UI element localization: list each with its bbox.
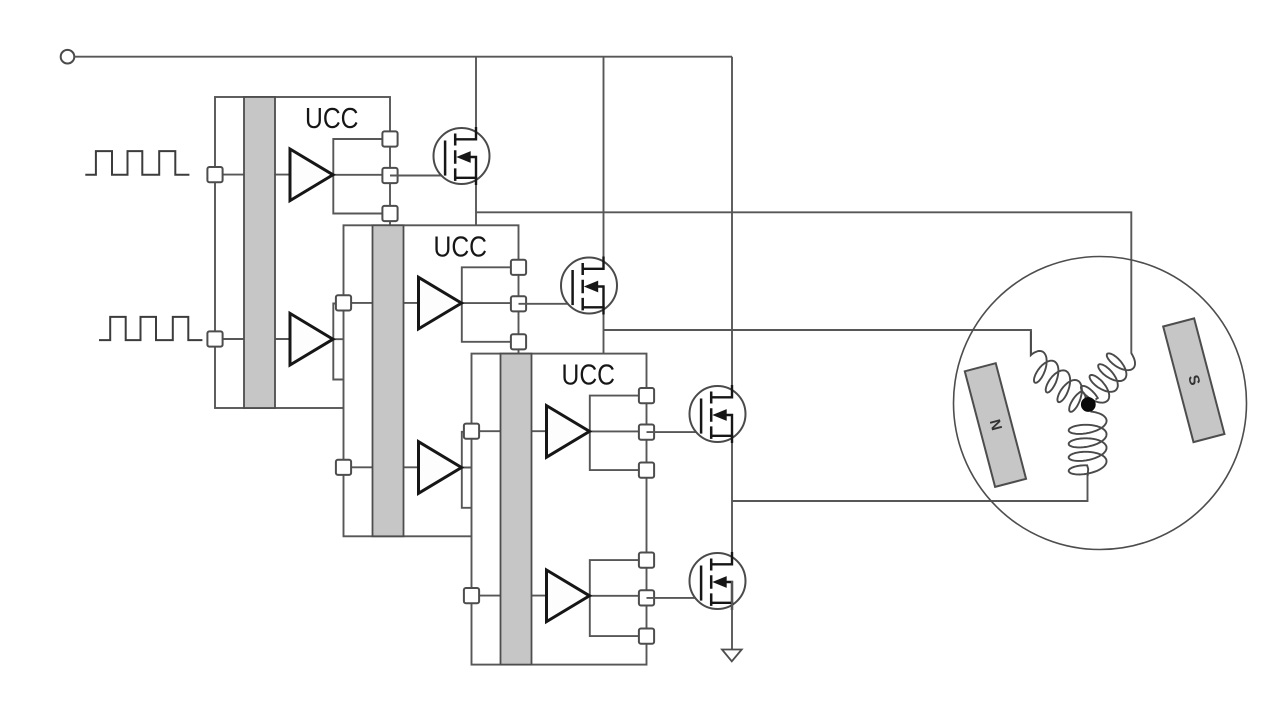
wire phase C to motor <box>732 475 1088 501</box>
wire gate Q1 <box>390 175 446 177</box>
motor outline <box>954 257 1247 550</box>
wire source Q3 to drain Q4 <box>731 414 733 581</box>
op-amp U1 gate driver UCC block 1 <box>207 97 397 408</box>
wire gate Q2 <box>519 303 574 305</box>
ground <box>722 650 742 662</box>
PWM input signal 1 <box>85 151 189 175</box>
wire drain drop Q2 <box>603 57 605 286</box>
wire VDC bus <box>74 56 732 58</box>
wire drain drop Q1 <box>475 57 477 156</box>
op-amp U3 gate driver UCC block 3 <box>464 354 654 665</box>
magnet S <box>1163 318 1224 442</box>
wire source Q4 to ground <box>731 581 733 649</box>
transistor Q2 <box>561 257 617 315</box>
transistor Q4 <box>690 552 746 610</box>
transistor Q3 <box>690 385 746 443</box>
wire gate Q4 <box>647 597 702 599</box>
wire drain drop Q3 <box>731 57 733 414</box>
node star point <box>1081 397 1096 412</box>
magnet N <box>965 363 1026 487</box>
transistor Q1 <box>434 127 490 185</box>
op-amp U2 gate driver UCC block 2 <box>336 225 526 536</box>
wire source Q2 to phase B <box>603 286 605 354</box>
node VDC input terminal <box>61 50 75 64</box>
inductor winding phase A (upper-right) <box>1081 353 1135 402</box>
inductor winding phase B (upper-left) <box>1031 331 1086 412</box>
inductor winding phase C (bottom) <box>1069 412 1107 477</box>
PWM input signal 2 <box>99 317 202 340</box>
wire phase A to motor <box>476 212 1131 353</box>
wire gate Q3 <box>647 431 702 433</box>
wire source Q1 to phase A <box>475 156 477 225</box>
wire phase B to motor <box>604 330 1032 355</box>
